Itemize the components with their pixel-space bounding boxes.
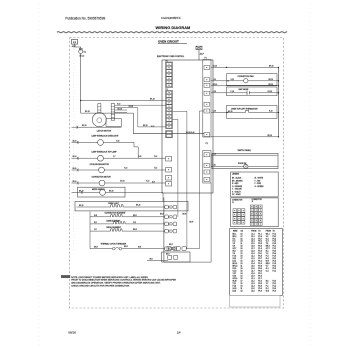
svg-text:BK-10: BK-10 (79, 190, 84, 192)
svg-text:BK-10: BK-10 (118, 108, 123, 110)
svg-text:R - RED: R - RED (232, 183, 239, 185)
svg-text:GY - GRAY: GY - GRAY (232, 193, 241, 196)
svg-text:T-10: T-10 (154, 156, 157, 158)
wire lamp1 joins lamp2 (134, 142, 138, 158)
svg-text:COOLING FAN MOTOR: COOLING FAN MOTOR (90, 163, 110, 166)
svg-text:AND DANGEROUS OPERATION. VERIF: AND DANGEROUS OPERATION. VERIFY PROPER O… (71, 282, 161, 285)
latch platform (106, 119, 121, 127)
svg-text:T - TAN: T - TAN (255, 179, 261, 182)
svg-text:R-10: R-10 (213, 111, 217, 113)
svg-text:CONVECTION MOTOR: CONVECTION MOTOR (92, 177, 112, 179)
svg-text:BK-10: BK-10 (213, 65, 218, 67)
micro switch box (78, 187, 126, 197)
svg-text:R-10: R-10 (269, 111, 273, 113)
svg-text:CHECK GROUND CIRCUITS FOR PROP: CHECK GROUND CIRCUITS FOR PROPER CONNECT… (71, 286, 130, 288)
latch terminal strip (111, 104, 114, 121)
svg-text:BK - BLACK: BK - BLACK (232, 177, 242, 180)
svg-text:W-10: W-10 (73, 181, 77, 183)
svg-text:CONNECTOR: CONNECTOR (252, 199, 263, 201)
latch motor M1 (92, 113, 106, 127)
svg-text:Y-10: Y-10 (124, 168, 127, 170)
long wire down 1 (173, 120, 178, 217)
svg-text:BR-10: BR-10 (269, 84, 274, 86)
diagram dashed frame (70, 38, 284, 309)
svg-text:PRIOR TO DISCONNECTION WHEN SE: PRIOR TO DISCONNECTION WHEN SERVICING CO… (71, 279, 176, 282)
bottom title box (230, 295, 281, 307)
wire P1-7 (211, 136, 279, 138)
junction (80, 100, 81, 101)
wires latch to EOC (115, 104, 166, 106)
fold mark right (309, 4, 311, 346)
svg-text:V-10: V-10 (117, 103, 120, 105)
svg-text:P - PINK: P - PINK (255, 183, 262, 185)
svg-text:OVEN TOP LEFT THERMOSTAT: OVEN TOP LEFT THERMOSTAT (231, 107, 259, 110)
svg-text:W-10: W-10 (73, 156, 77, 158)
broil element row (90, 223, 112, 225)
svg-text:W - WHITE: W - WHITE (255, 178, 264, 180)
svg-text:BK-10: BK-10 (79, 205, 84, 207)
svg-text:THERMAL CUTOUT BREAKER: THERMAL CUTOUT BREAKER (101, 243, 127, 246)
svg-text:G - GREEN: G - GREEN (255, 186, 265, 188)
wire bottom row (147, 259, 168, 261)
gas valve symbol (211, 92, 247, 94)
wire micro switch to EOC (125, 191, 163, 193)
svg-text:GY-10: GY-10 (120, 181, 125, 183)
svg-text:BK-10: BK-10 (228, 111, 233, 113)
svg-text:LATCH MOTOR: LATCH MOTOR (97, 129, 112, 132)
svg-text:WIRING DIAGRAM: WIRING DIAGRAM (156, 25, 191, 30)
wire latch feed (72, 126, 93, 128)
connector J2 grid (250, 205, 254, 208)
svg-text:O - ORANGE: O - ORANGE (232, 185, 243, 188)
lamp filament (109, 205, 123, 207)
svg-text:BK-10: BK-10 (136, 204, 141, 206)
connector in oven light box (165, 205, 169, 209)
svg-text:BK-10: BK-10 (269, 65, 274, 67)
svg-text:LAMP INTERLOCK OVEN LIGHT: LAMP INTERLOCK OVEN LIGHT (92, 135, 120, 138)
svg-text:NOTE: DISCONNECT POWER BEFORE: NOTE: DISCONNECT POWER BEFORE SERVICING … (71, 276, 148, 279)
svg-text:BK-10: BK-10 (150, 99, 155, 101)
connector P5 (166, 157, 172, 162)
svg-text:Y-7: Y-7 (113, 156, 115, 158)
svg-text:LAMP INTERLOCK TOP LAMP: LAMP INTERLOCK TOP LAMP (92, 150, 118, 153)
wire list table (230, 229, 283, 296)
terminal L1 (72, 40, 78, 45)
svg-text:BK-10: BK-10 (80, 56, 85, 58)
right neutral bus (278, 67, 280, 136)
svg-text:CONVECTION ELEMENT: CONVECTION ELEMENT (105, 212, 127, 214)
EOC U1 box (162, 60, 213, 193)
svg-text:P1: P1 (205, 57, 207, 59)
long wire down 2 (173, 111, 187, 248)
svg-text:J2: J2 (252, 201, 254, 203)
thermal cutout row (90, 248, 113, 250)
svg-text:W-10: W-10 (73, 168, 77, 170)
svg-text:P1-1: P1-1 (273, 271, 277, 273)
svg-text:V-10: V-10 (231, 79, 234, 81)
svg-text:FROM: FROM (251, 230, 257, 232)
svg-text:BK-10: BK-10 (268, 135, 273, 137)
svg-text:P-10: P-10 (231, 91, 234, 93)
wire main neutral feed (81, 113, 204, 134)
svg-text:LEGEND: LEGEND (232, 174, 240, 176)
svg-text:14: 14 (177, 330, 181, 334)
svg-text:W-10: W-10 (73, 140, 77, 142)
motor B3 convection fan (211, 80, 244, 82)
connector chain bottom (167, 246, 171, 250)
svg-text:GAS VALVE: GAS VALVE (239, 88, 250, 91)
third element row (90, 230, 109, 232)
connector A1-P (196, 46, 202, 49)
svg-text:OVEN CIRCUIT: OVEN CIRCUIT (158, 40, 179, 44)
svg-text:BR - BROWN: BR - BROWN (232, 180, 243, 182)
svg-text:BR-10: BR-10 (269, 79, 274, 81)
gas valve box (227, 87, 278, 96)
svg-text:08/16: 08/16 (68, 330, 76, 334)
connector box (231, 198, 279, 227)
group left bus (89, 212, 91, 249)
long wire down 2b (200, 111, 205, 249)
svg-text:P-10: P-10 (213, 91, 216, 93)
wire EOC to oven light (162, 193, 164, 202)
svg-text:W-3: W-3 (266, 290, 269, 292)
svg-text:V-10: V-10 (151, 126, 154, 128)
svg-text:GY-10: GY-10 (129, 106, 134, 108)
connector P4 (166, 131, 173, 138)
svg-text:T-30: T-30 (213, 165, 216, 167)
svg-text:V - VIOLET: V - VIOLET (232, 191, 241, 193)
svg-text:Y-40: Y-40 (138, 156, 141, 158)
right bus of element group (163, 198, 165, 263)
convection fan box (227, 74, 278, 86)
svg-text:O-2: O-2 (266, 271, 269, 273)
neutral rail faint (73, 48, 75, 250)
fold mark left (38, 4, 40, 346)
wire P1-1 to bus (211, 66, 279, 68)
wire L1 to fuse (75, 44, 81, 49)
svg-text:O-30: O-30 (213, 153, 217, 155)
svg-text:Y-10: Y-10 (146, 181, 149, 183)
svg-text:CONVECTION FAN: CONVECTION FAN (238, 75, 255, 78)
bottom junction box (162, 252, 190, 262)
svg-text:P2: P2 (206, 143, 208, 145)
svg-text:J1: J1 (232, 202, 234, 204)
note text (61, 275, 70, 278)
svg-text:W-10 A1-N: W-10 A1-N (186, 131, 195, 134)
svg-text:GY-10: GY-10 (268, 91, 273, 93)
svg-text:Y-40: Y-40 (116, 140, 119, 142)
svg-text:T-10: T-10 (154, 168, 157, 170)
svg-text:N-1: N-1 (84, 52, 87, 54)
latch switch pins (98, 104, 101, 114)
legend box (231, 172, 279, 197)
svg-text:Publication No. 5995679599: Publication No. 5995679599 (65, 16, 105, 20)
svg-text:OR-10: OR-10 (213, 84, 218, 86)
svg-text:ELECTRONIC OVEN CONTROL: ELECTRONIC OVEN CONTROL (157, 56, 184, 58)
svg-text:18: 18 (241, 290, 243, 292)
svg-text:Y-10: Y-10 (213, 79, 216, 81)
svg-text:BK-10: BK-10 (82, 125, 87, 127)
svg-text:FROM: FROM (266, 230, 272, 232)
svg-text:P5-4: P5-4 (273, 290, 277, 292)
svg-text:J2-6: J2-6 (251, 290, 254, 292)
svg-text:B-24: B-24 (233, 290, 237, 292)
svg-text:BK-10: BK-10 (143, 125, 148, 127)
svg-text:P6-6: P6-6 (258, 290, 262, 292)
svg-text:BK-10: BK-10 (85, 111, 90, 113)
thermostat box (227, 106, 278, 119)
fuse F1 (79, 50, 83, 54)
svg-text:CONNECTOR: CONNECTOR (232, 199, 243, 201)
wavy rule under heading (57, 32, 287, 33)
wire L1 vertical bus (80, 54, 82, 114)
connector J1 grid (233, 209, 237, 212)
switch panel box (212, 154, 278, 169)
svg-text:SWITCH PANEL: SWITCH PANEL (238, 149, 251, 152)
oven light assembly box (75, 202, 188, 211)
svg-text:BK-10: BK-10 (109, 190, 114, 192)
wire to EOC P3-1 (81, 100, 166, 102)
svg-text:CGDS3065PFK: CGDS3065PFK (161, 16, 181, 20)
wire P1-3 (211, 85, 279, 87)
thermostat S1 (211, 112, 244, 114)
svg-text:DOOR SW: DOOR SW (238, 163, 247, 165)
wire P2-1 (211, 154, 278, 156)
long wire down 3 (164, 183, 211, 262)
svg-text:Y - YELLOW: Y - YELLOW (232, 189, 242, 191)
bake element row (90, 216, 109, 218)
